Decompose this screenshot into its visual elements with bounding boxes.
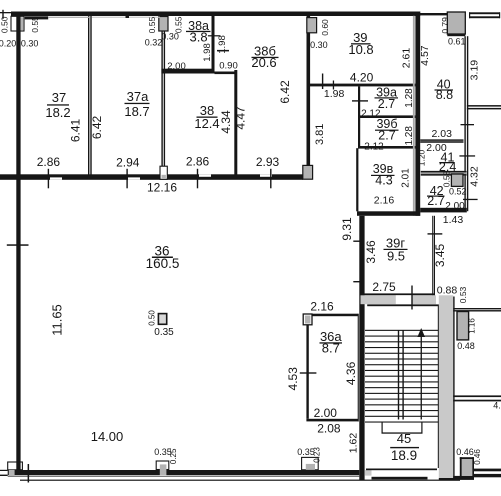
wall 38/38b — [234, 70, 237, 175]
svg-text:2.03: 2.03 — [431, 128, 452, 140]
svg-text:1.28: 1.28 — [404, 88, 415, 108]
svg-text:0.55: 0.55 — [174, 16, 184, 33]
svg-text:3.19: 3.19 — [468, 60, 480, 81]
shaft box 41/42 — [451, 174, 463, 186]
svg-text:2.7: 2.7 — [427, 194, 444, 208]
staircase right wall grey band — [439, 295, 453, 478]
svg-text:0.52: 0.52 — [449, 186, 467, 196]
tick on 39g right wall — [428, 233, 443, 234]
wall 36a bottom — [306, 419, 358, 422]
wall 39g right double — [432, 216, 433, 296]
svg-text:8.7: 8.7 — [322, 341, 340, 356]
svg-text:2.08: 2.08 — [317, 421, 341, 435]
wall right-wing top thin — [419, 13, 448, 15]
wall 38a right — [212, 16, 215, 70]
svg-text:0.30: 0.30 — [21, 39, 39, 49]
column box room36 — [158, 314, 166, 325]
svg-text:9.5: 9.5 — [387, 248, 405, 263]
svg-text:3.45: 3.45 — [433, 243, 447, 267]
ticks on staircase left wall — [353, 241, 359, 242]
tick top-left edge — [2, 10, 3, 19]
shaft box bottom edge — [447, 34, 465, 37]
window box wall 37a/38 top — [159, 17, 168, 32]
svg-text:18.9: 18.9 — [391, 448, 417, 463]
staircase stringer double line — [398, 330, 399, 419]
wall 3.19 room double — [467, 105, 501, 107]
svg-text:8.8: 8.8 — [436, 88, 453, 102]
svg-text:2.16: 2.16 — [310, 299, 334, 313]
svg-text:9.31: 9.31 — [340, 217, 354, 241]
wall room39 bottom — [309, 84, 416, 87]
svg-text:37а: 37а — [127, 89, 149, 104]
svg-text:12.4: 12.4 — [194, 116, 219, 131]
pilaster bottom middle-left — [156, 461, 169, 470]
staircase interior right line — [438, 305, 440, 469]
wall bottom-right block — [450, 476, 474, 480]
svg-text:2.94: 2.94 — [116, 156, 140, 170]
stair entrance threshold lines — [366, 469, 437, 471]
svg-text:4.: 4. — [493, 401, 501, 411]
thin sill line room37/37a — [48, 17, 90, 18]
tick on bottom wall left — [28, 464, 30, 483]
svg-text:3.81: 3.81 — [314, 124, 326, 145]
tick under top wall — [126, 16, 130, 18]
wall 37a/38 double — [161, 31, 162, 175]
svg-text:20.6: 20.6 — [251, 55, 276, 70]
svg-text:6.41: 6.41 — [69, 118, 83, 142]
pilaster box on room36 top wall — [160, 166, 167, 179]
svg-text:4.53: 4.53 — [286, 367, 300, 391]
wall main right thick (39 block) — [415, 12, 420, 216]
svg-text:2.61: 2.61 — [401, 48, 413, 69]
svg-text:0.30: 0.30 — [161, 32, 179, 42]
svg-text:1.16: 1.16 — [468, 318, 477, 334]
pilaster box 36a corner — [303, 314, 312, 325]
svg-text:0.50: 0.50 — [0, 16, 10, 33]
wall 38a bottom — [161, 69, 214, 74]
svg-text:1.43: 1.43 — [443, 214, 464, 226]
svg-text:2.00: 2.00 — [445, 201, 465, 212]
svg-text:4.32: 4.32 — [469, 166, 481, 187]
svg-text:0.35: 0.35 — [154, 327, 174, 338]
wall outer top — [11, 12, 420, 17]
line below bottom wall — [20, 480, 460, 481]
svg-text:0.55: 0.55 — [30, 16, 40, 33]
staircase landing top line — [367, 304, 439, 306]
wall 41/42 — [421, 171, 467, 176]
svg-text:0.55: 0.55 — [147, 17, 157, 34]
svg-text:2.86: 2.86 — [37, 155, 61, 169]
svg-text:0.79: 0.79 — [440, 17, 450, 34]
svg-text:4.34: 4.34 — [219, 110, 233, 134]
wall right lower y308 — [453, 308, 501, 309]
wall 42 bottom — [420, 208, 467, 213]
svg-text:4.20: 4.20 — [350, 70, 374, 84]
pilaster bottom middle-right — [302, 457, 319, 469]
svg-text:2.00: 2.00 — [167, 61, 186, 72]
shaft box right middle — [457, 312, 469, 340]
door notches in room36 top wall — [50, 177, 62, 179]
tick on corridor wall — [352, 100, 368, 101]
svg-text:0.50: 0.50 — [148, 310, 157, 326]
pilaster bottom-left corner — [8, 462, 23, 470]
svg-text:1.62: 1.62 — [348, 433, 360, 454]
sill bar under top wall room37 — [25, 16, 49, 19]
tick on left wall — [7, 244, 29, 246]
svg-text:2.75: 2.75 — [372, 280, 396, 294]
svg-text:18.2: 18.2 — [45, 105, 70, 120]
svg-text:6.42: 6.42 — [90, 115, 104, 139]
grey box at right end of room36 top wall — [303, 165, 313, 179]
svg-text:1.98: 1.98 — [217, 35, 228, 54]
grey wedge at stair entrance — [365, 470, 372, 476]
svg-text:0.20: 0.20 — [0, 39, 16, 49]
svg-text:0.53: 0.53 — [458, 286, 468, 303]
svg-text:11.65: 11.65 — [49, 304, 64, 336]
staircase bottom landing outline — [382, 422, 383, 434]
svg-text:12.16: 12.16 — [147, 181, 177, 195]
svg-text:0.32: 0.32 — [145, 38, 163, 48]
wall right lower y395 double — [453, 395, 501, 397]
svg-text:4.3: 4.3 — [375, 173, 392, 187]
svg-text:10.8: 10.8 — [348, 42, 373, 57]
svg-text:0.61: 0.61 — [448, 36, 466, 46]
wall top-right double — [469, 12, 500, 14]
svg-text:2.86: 2.86 — [186, 154, 210, 168]
wall stub right of 0.90 door — [215, 72, 237, 75]
svg-text:4.47: 4.47 — [234, 106, 248, 130]
pilaster top-left corner — [11, 16, 24, 31]
svg-text:2.12: 2.12 — [364, 142, 384, 153]
svg-text:0.48: 0.48 — [457, 341, 475, 351]
wall bottom-left thin extensions — [0, 470, 8, 471]
svg-text:1.98: 1.98 — [324, 88, 345, 100]
wall 39g top — [357, 211, 420, 216]
dimension ticks on room36 top wall — [48, 169, 49, 189]
svg-text:160.5: 160.5 — [146, 256, 180, 271]
wall 39b/39v — [358, 146, 415, 149]
svg-text:14.00: 14.00 — [91, 429, 124, 444]
wall 37/37a double — [88, 16, 89, 175]
svg-text:0.25: 0.25 — [169, 448, 178, 464]
svg-text:3.8: 3.8 — [190, 29, 208, 44]
wall 36a left — [306, 325, 308, 419]
wall top-left thin extension — [0, 12, 11, 13]
svg-text:2.93: 2.93 — [256, 155, 280, 169]
wall room40 right double — [464, 36, 465, 211]
wall 38b/39 — [307, 15, 311, 179]
staircase top wall line — [360, 293, 435, 295]
staircase treads — [365, 330, 439, 331]
svg-text:45: 45 — [397, 431, 411, 446]
svg-text:0.90: 0.90 — [219, 61, 238, 72]
svg-text:4.57: 4.57 — [419, 45, 431, 66]
wall 39a/39b — [358, 115, 415, 118]
leader line 38a — [208, 35, 221, 36]
tick on room39 bottom wall — [322, 74, 323, 90]
wall room36 top band — [0, 174, 303, 180]
svg-text:2.7: 2.7 — [378, 129, 395, 143]
staircase arrow — [421, 333, 422, 420]
wall 40/41 — [420, 139, 463, 142]
wall corridor/39v — [356, 148, 358, 211]
svg-text:0.46: 0.46 — [473, 449, 482, 465]
svg-text:1.20: 1.20 — [417, 149, 427, 166]
tick 1.98 right — [217, 50, 229, 52]
tick 1.98 start — [333, 81, 334, 90]
svg-text:0.30: 0.30 — [310, 40, 328, 50]
svg-text:2.01: 2.01 — [400, 168, 411, 188]
staircase top wall grey — [361, 295, 437, 304]
ticks on room40 right wall — [461, 124, 475, 125]
wall outer left — [16, 12, 20, 471]
pilaster bottom right grey — [460, 457, 462, 476]
window box wall 38b/39 top — [307, 18, 317, 33]
grey line left of main right wall — [413, 16, 415, 216]
tick on 36a left wall — [300, 372, 317, 373]
svg-text:18.7: 18.7 — [124, 104, 149, 119]
wall bottom-right double lines — [473, 469, 501, 472]
svg-text:0.88: 0.88 — [437, 285, 458, 297]
svg-text:1.98: 1.98 — [202, 43, 213, 62]
wall outer left upper segment through pilaster — [16, 16, 20, 31]
svg-text:6.42: 6.42 — [278, 80, 292, 104]
wall 36a top — [304, 314, 359, 317]
wall outer bottom — [8, 470, 360, 475]
staircase right wall edge — [453, 297, 454, 479]
svg-text:2.00: 2.00 — [314, 406, 338, 420]
tick at staircase door — [411, 286, 412, 310]
svg-text:2.16: 2.16 — [374, 194, 395, 206]
svg-text:0.23: 0.23 — [313, 447, 322, 463]
svg-text:37: 37 — [52, 90, 66, 105]
svg-text:0.46: 0.46 — [456, 447, 474, 457]
svg-text:3.46: 3.46 — [364, 240, 378, 264]
wall corridor/39a — [358, 86, 360, 148]
wall staircase left thick — [359, 216, 364, 480]
staircase door gap — [396, 295, 412, 304]
svg-text:0.60: 0.60 — [320, 19, 330, 36]
svg-text:4.36: 4.36 — [344, 361, 358, 385]
shaft box top right — [447, 12, 465, 34]
svg-text:1.28: 1.28 — [404, 126, 415, 146]
wall 36a right thin — [358, 314, 359, 422]
